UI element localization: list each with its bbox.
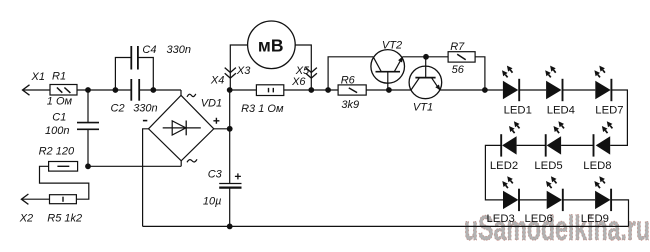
svg-text:C3: C3 xyxy=(208,169,223,181)
wire R7 down to LED feed xyxy=(475,57,485,90)
LED LED6 xyxy=(525,176,563,225)
LED LED1 xyxy=(502,66,532,117)
capacitor C4 330n with loop wires xyxy=(115,44,191,90)
wire LED8 to LED5 xyxy=(561,144,593,146)
wire row2 to row3 xyxy=(485,145,503,200)
wire C2 to bridge xyxy=(139,89,181,91)
node C4 right leg xyxy=(150,87,156,93)
node X3 X4 xyxy=(227,87,233,93)
wire LED3 to LED6 xyxy=(519,199,547,201)
LED LED7 xyxy=(594,66,623,117)
wire R1 to C2 xyxy=(77,89,131,91)
LED LED2 xyxy=(490,121,520,172)
wire bridge plus stub xyxy=(214,128,230,130)
minus output mark xyxy=(143,120,147,122)
wire LED9 to bottom rail xyxy=(611,200,628,227)
diode inside VD1 xyxy=(163,121,201,136)
LED LED8 xyxy=(583,121,612,172)
svg-text:LED1: LED1 xyxy=(504,104,532,116)
bridge rectifier VD1 xyxy=(149,90,223,161)
LED LED4 xyxy=(545,66,575,117)
svg-text:100n: 100n xyxy=(45,125,69,137)
node LED feed xyxy=(482,87,488,93)
AC tilde upper xyxy=(187,94,196,97)
LED LED9 xyxy=(581,176,611,225)
wire R6 to VT1 collector xyxy=(366,89,411,91)
svg-text:мВ: мВ xyxy=(258,36,284,56)
svg-text:X1: X1 xyxy=(31,71,45,83)
resistor R3 1 Om xyxy=(241,85,284,115)
svg-text:1 Ом: 1 Ом xyxy=(47,96,73,108)
svg-text:X2: X2 xyxy=(19,213,33,225)
svg-text:10µ: 10µ xyxy=(203,196,222,208)
svg-text:LED7: LED7 xyxy=(595,104,623,116)
wire bridge minus to bottom rail xyxy=(143,129,149,227)
node riser junction xyxy=(325,87,331,93)
connector X5 X6 chevrons xyxy=(291,65,317,88)
wire LED4 to LED7 xyxy=(563,89,596,91)
node VT2 base tap xyxy=(386,87,392,93)
LED LED5 xyxy=(534,121,564,172)
resistor R5 1k2 xyxy=(47,195,82,225)
svg-text:X6: X6 xyxy=(291,76,306,88)
resistor R7 56 xyxy=(448,41,475,76)
node C4 left leg xyxy=(113,87,119,93)
wire node to R3 xyxy=(230,89,257,91)
wire R2 bypass zigzag xyxy=(40,166,89,199)
svg-text:VT2: VT2 xyxy=(382,40,402,52)
svg-text:330n: 330n xyxy=(133,103,157,115)
node top-left junction xyxy=(85,87,91,93)
wire plus rail down through C3 xyxy=(229,90,231,226)
LED LED3 xyxy=(487,176,520,225)
svg-text:C2: C2 xyxy=(111,103,125,115)
connector X3 X4 chevrons xyxy=(210,65,251,87)
capacitor C1 100n xyxy=(45,112,99,138)
svg-text:R5 1k2: R5 1k2 xyxy=(47,213,82,225)
svg-text:R1: R1 xyxy=(52,71,66,83)
wire row1 to row2 xyxy=(610,90,627,145)
svg-text:R2 120: R2 120 xyxy=(39,146,75,158)
meter PV1 mV xyxy=(230,21,311,90)
node X5 X6 xyxy=(308,87,314,93)
wire VT1 emitter to LED1 xyxy=(440,89,503,91)
plus output mark xyxy=(213,118,219,124)
node R2 junction xyxy=(85,163,91,169)
wire riser to upper branch xyxy=(328,57,373,90)
svg-text:330n: 330n xyxy=(167,44,191,56)
node C3 on rail xyxy=(227,224,233,230)
resistor R1 xyxy=(47,71,77,108)
svg-text:X3: X3 xyxy=(236,65,251,77)
svg-text:LED5: LED5 xyxy=(534,160,562,172)
svg-text:VD1: VD1 xyxy=(201,97,222,109)
svg-text:LED4: LED4 xyxy=(547,104,575,116)
svg-text:R3 1 Ом: R3 1 Ом xyxy=(241,103,284,115)
capacitor C3 10u polarized xyxy=(203,169,242,208)
svg-text:C4: C4 xyxy=(142,44,156,56)
svg-text:56: 56 xyxy=(452,64,465,76)
svg-text:LED3: LED3 xyxy=(487,213,515,225)
svg-text:LED6: LED6 xyxy=(525,213,553,225)
svg-text:C1: C1 xyxy=(52,112,66,124)
wire R3 to R6 xyxy=(284,89,338,91)
AC tilde lower xyxy=(187,159,197,162)
node bridge plus xyxy=(227,126,233,132)
connector X2 xyxy=(19,194,50,225)
svg-text:LED2: LED2 xyxy=(490,160,518,172)
svg-text:X4: X4 xyxy=(210,75,224,87)
wire LED6 to LED9 xyxy=(563,199,595,201)
bottom rail xyxy=(143,225,629,227)
svg-text:R6: R6 xyxy=(341,75,356,87)
capacitor C2 330n xyxy=(111,79,158,115)
svg-text:VT1: VT1 xyxy=(413,102,433,114)
transistor VT1 xyxy=(409,57,442,114)
wire R2 node to bridge AC2 xyxy=(88,161,181,167)
transistor VT2 xyxy=(371,40,405,90)
svg-text:LED9: LED9 xyxy=(581,213,609,225)
svg-text:R7: R7 xyxy=(450,41,465,53)
resistor R6 3k9 xyxy=(338,75,366,111)
wire LED5 to LED2 xyxy=(517,144,546,146)
connector X1 xyxy=(23,71,51,95)
wire LED1 to LED4 xyxy=(519,89,546,91)
resistor R2 120 xyxy=(39,146,78,172)
svg-text:3k9: 3k9 xyxy=(341,99,359,111)
svg-text:LED8: LED8 xyxy=(583,160,611,172)
wire left rail down xyxy=(87,90,89,166)
wire VT2 emitter to R7 xyxy=(403,56,449,58)
node VT1 base junction xyxy=(423,54,429,60)
